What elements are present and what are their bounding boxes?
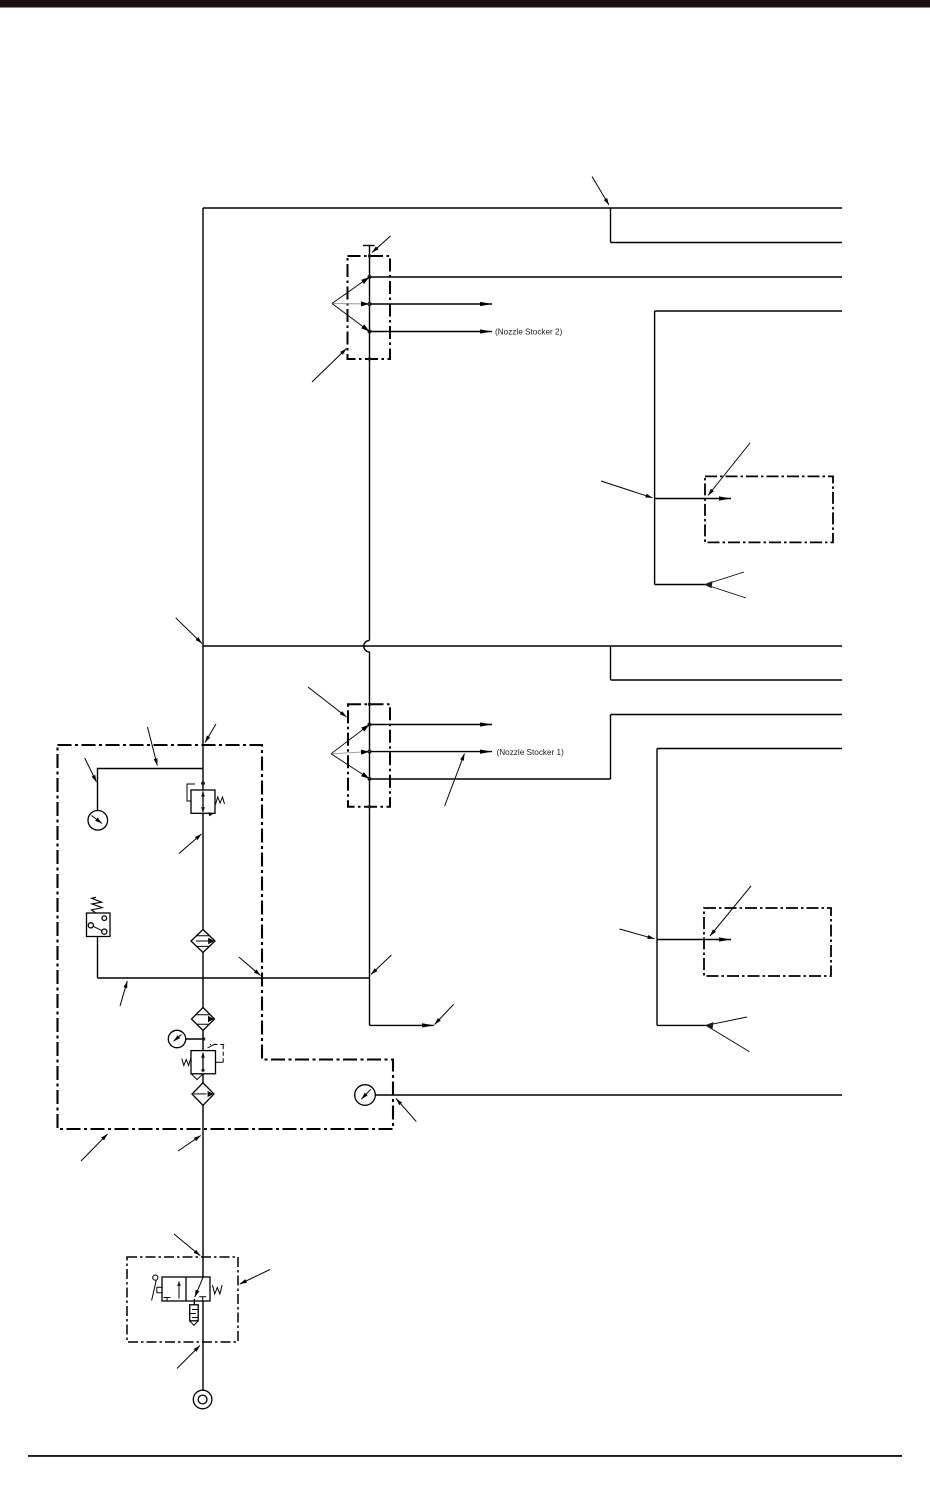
wire exhaust stub 1 <box>655 584 705 586</box>
regulator R1 <box>187 781 224 816</box>
wire mid branch drop at x=610 <box>610 646 612 680</box>
stocker box B2 (dash-dot) <box>704 908 831 976</box>
leader to nozzle stocker 1 line <box>445 754 465 807</box>
wire top branch drop at x=610 <box>610 208 612 243</box>
leader to gauge branch wire <box>148 727 158 766</box>
wire second header line <box>611 242 843 244</box>
leader to manifold M1 box <box>312 349 347 383</box>
leader to top header corner <box>592 177 609 206</box>
manifold M1 (nozzle stocker 2 distributor) <box>332 254 390 360</box>
leader to switch drop wire <box>120 981 127 1006</box>
leader to mid junction <box>176 618 202 644</box>
leader to main line below R1 <box>179 834 202 854</box>
wire drop to page arrow <box>369 978 371 1025</box>
pressure gauge G2 <box>168 1030 205 1047</box>
wire pressure switch cross line <box>98 977 370 979</box>
wire riser x=610 lower <box>610 715 612 780</box>
leader to valve box top crossing <box>174 1234 200 1256</box>
wire port into stocker box 1 <box>655 498 731 500</box>
wire top header to right edge <box>203 207 842 209</box>
wire lower header line 3 <box>611 714 843 716</box>
leader to enclosure bottom edge <box>81 1134 108 1161</box>
leader to cross junction x=369 <box>371 955 391 975</box>
wire pressure switch drop <box>97 937 99 979</box>
leader into stocker box B1 <box>708 443 750 496</box>
wire box2 left vertical <box>656 749 658 1026</box>
leader to valve box bottom crossing <box>177 1346 200 1369</box>
muffler on valve exhaust <box>190 1299 199 1325</box>
pressure gauge G3 <box>355 1085 376 1106</box>
leader to next-page arrow <box>435 1005 454 1025</box>
wire to-next-page arrow <box>370 1024 435 1026</box>
wire manifold feed vertical lower part <box>369 652 371 978</box>
manifold M2 (nozzle stocker 1 distributor) <box>331 703 390 809</box>
wire box2 top edge line <box>657 748 842 750</box>
leader to manifold M2 box <box>308 687 347 717</box>
leader to valve box right edge <box>240 1270 270 1285</box>
wire lower manifold port C run <box>370 778 611 780</box>
leader to gauge G1 drop <box>85 758 97 782</box>
valve V1 (3/2 hand valve) <box>152 1275 223 1301</box>
page header bar <box>0 0 930 8</box>
wire main supply vertical <box>202 208 204 1390</box>
wire gauge output line to right edge <box>393 1094 842 1096</box>
regulator R2 <box>182 1044 224 1080</box>
page footer rule <box>28 1455 902 1457</box>
leader into stocker box B2 <box>710 886 751 936</box>
air unit enclosure (dash-dot L shape) <box>58 745 394 1129</box>
wire exhaust open arrow 2 <box>706 1017 750 1052</box>
stocker box B1 (dash-dot) <box>705 476 833 542</box>
leader to box2 port junction <box>620 929 655 939</box>
leader to switch line at enclosure edge <box>239 957 261 976</box>
wire lower header line 2 <box>611 679 843 681</box>
pressure switch PS1 <box>87 897 111 936</box>
leader to manifold M1 plug <box>372 236 391 253</box>
wire port into stocker box 2 <box>657 939 731 941</box>
wire manifold M2 port A arrow <box>370 724 493 726</box>
wire exhaust open arrow 1 <box>705 572 746 598</box>
pressure gauge G1 <box>88 811 108 831</box>
filter F1 (with separator) <box>191 930 215 953</box>
svg-text:(Nozzle Stocker 1): (Nozzle Stocker 1) <box>497 748 565 757</box>
wire manifold M1 port B arrow <box>370 303 493 305</box>
filter F2 <box>192 1008 215 1031</box>
wire gauge branch top <box>98 769 204 811</box>
filter F3 <box>192 1083 214 1106</box>
svg-text:(Nozzle Stocker 2): (Nozzle Stocker 2) <box>495 328 563 337</box>
wire exhaust stub 2 <box>657 1024 706 1026</box>
wire box1 left vertical <box>654 311 656 585</box>
air source port <box>193 1390 212 1409</box>
wire manifold M2 port B arrow (Nozzle Stocker 1) <box>370 751 493 753</box>
wire upper manifold port A to right edge <box>370 276 843 278</box>
wire line hop over mid line <box>364 640 370 652</box>
wire plug tee above upper manifold <box>363 245 375 247</box>
valve enclosure box (dash-dot) <box>127 1257 238 1342</box>
leader to box1 port junction <box>601 481 653 498</box>
leader to main line at enclosure bottom <box>178 1136 201 1152</box>
leader to gauge G3 output <box>396 1099 416 1122</box>
wire manifold M1 port C arrow (Nozzle Stocker 2) <box>370 331 493 333</box>
leader to enclosure top crossing <box>205 724 216 743</box>
wire box1 top edge line <box>655 310 842 312</box>
wire gauge G3 stub <box>376 1094 394 1096</box>
wire gauge G2 stub <box>186 1038 204 1040</box>
wire manifold feed vertical upper part <box>369 246 371 641</box>
wire mid distribution line <box>203 645 842 647</box>
